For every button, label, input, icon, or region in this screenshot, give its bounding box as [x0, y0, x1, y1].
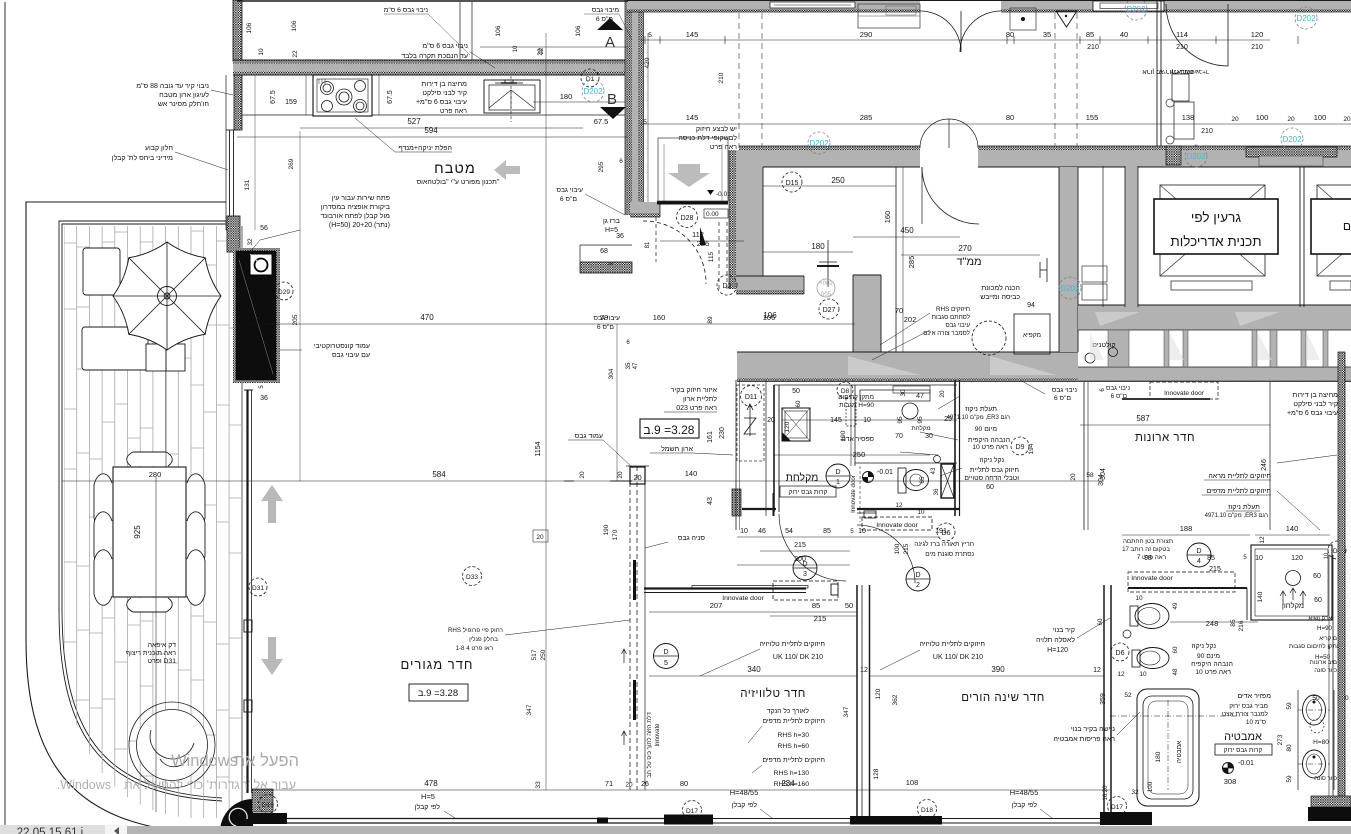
- svg-text:106: 106: [246, 22, 253, 33]
- svg-text:חיזוקים לתליית טלויזיה: חיזוקים לתליית טלויזיה: [919, 640, 985, 648]
- svg-text:5: 5: [664, 660, 668, 667]
- top right door arc: [1166, 4, 1228, 66]
- svg-text:10: 10: [258, 48, 265, 56]
- svg-text:נסתרת סוגנת מים: נסתרת סוגנת מים: [925, 551, 974, 558]
- svg-text:מקלחת: מקלחת: [911, 424, 930, 432]
- svg-text:UK 110/ DK 210: UK 110/ DK 210: [933, 654, 983, 661]
- marker D6b: [1111, 643, 1129, 661]
- svg-text:ברז גן: ברז גן: [603, 218, 620, 225]
- svg-text:D17: D17: [686, 808, 698, 815]
- svg-text:D19: D19: [262, 802, 274, 809]
- svg-text:85: 85: [1207, 555, 1215, 562]
- svg-text:20: 20: [767, 417, 775, 424]
- svg-text:594: 594: [424, 126, 438, 135]
- svg-text:145: 145: [830, 417, 842, 424]
- svg-text:70: 70: [895, 433, 903, 440]
- status bar arrow: [105, 825, 127, 834]
- status bar scroll: [127, 826, 1351, 834]
- svg-text:מגבות H=90: מגבות H=90: [839, 402, 874, 409]
- entry wall vertical: [625, 0, 632, 215]
- svg-text:290: 290: [860, 30, 873, 39]
- hall level box: [640, 419, 699, 438]
- level -0.01 entry: [707, 190, 714, 195]
- svg-text:120: 120: [875, 688, 882, 699]
- svg-text:48: 48: [1172, 668, 1179, 675]
- svg-text:20: 20: [617, 471, 624, 479]
- svg-text:מפזיר אדים: מפזיר אדים: [1237, 693, 1271, 700]
- svg-text:ניישה בקיר בנוי: ניישה בקיר בנוי: [1071, 726, 1115, 733]
- marker D11: [741, 386, 762, 407]
- svg-text:22: 22: [292, 50, 299, 58]
- bathtub: [1137, 689, 1199, 806]
- svg-text:100: 100: [1314, 113, 1327, 122]
- dim 470 line: [250, 323, 855, 325]
- bath tag box: [1215, 744, 1272, 755]
- svg-text:הכנה למכונת: הכנה למכונת: [981, 284, 1020, 292]
- svg-text:106: 106: [291, 20, 298, 31]
- svg-text:חדר שינה הורים: חדר שינה הורים: [961, 692, 1045, 704]
- svg-text:מיבוי גבס: מיבוי גבס: [592, 7, 620, 14]
- svg-text:ארון חשמל: ארון חשמל: [661, 445, 693, 453]
- svg-text:D9: D9: [1016, 444, 1025, 451]
- svg-text:478: 478: [424, 779, 438, 788]
- svg-text:נקל ניקוז: נקל ניקוז: [1192, 642, 1217, 650]
- south band: [737, 352, 1078, 380]
- svg-text:ראה פריסות אמבטיה: ראה פריסות אמבטיה: [1054, 736, 1116, 743]
- section marker B: [600, 107, 626, 119]
- svg-text:לםשקופי דלת כניסה: לםשקופי דלת כניסה: [678, 134, 737, 142]
- svg-text:חדר טלוויזיה: חדר טלוויזיה: [740, 687, 806, 700]
- west wall corner block: [227, 216, 240, 252]
- towel heater: [846, 398, 856, 426]
- svg-text:246: 246: [1261, 459, 1268, 471]
- svg-text:קרות גבס ירוק: קרות גבס ירוק: [789, 489, 828, 496]
- svg-text:תצורת בטן חחתםה: תצורת בטן חחתםה: [1123, 538, 1173, 545]
- svg-text:295: 295: [598, 161, 605, 172]
- suite door swing: [779, 514, 846, 581]
- svg-text:D202: D202: [1126, 5, 1146, 14]
- svg-text:תעלת ניקוז: תעלת ניקוז: [965, 405, 997, 413]
- entry threshold black: [657, 201, 728, 205]
- svg-text:50: 50: [792, 388, 800, 395]
- svg-text:202: 202: [904, 315, 917, 324]
- svg-text:22.05 15.61 i: 22.05 15.61 i: [17, 827, 84, 834]
- svg-text:D202: D202: [583, 87, 603, 96]
- elevator area band: [1080, 157, 1157, 166]
- svg-text:סניה גבס: סניה גבס: [678, 535, 706, 542]
- svg-text:ם"ס 6: ם"ס 6: [560, 196, 578, 203]
- svg-text:100: 100: [1256, 113, 1269, 122]
- corridor east wall: [1059, 167, 1078, 352]
- svg-text:12: 12: [1117, 671, 1125, 678]
- svg-text:ם"ס 6: ם"ס 6: [597, 324, 615, 331]
- svg-text:בחלק פנלין: בחלק פנלין: [469, 635, 498, 643]
- washer rects right top: [1172, 74, 1189, 101]
- svg-text:מקפיא: מקפיא: [1023, 332, 1041, 339]
- svg-text:לאורך כל הנקד: לאורך כל הנקד: [767, 707, 809, 715]
- core label box: [1154, 199, 1278, 254]
- svg-text:מול קבלן לפתח אורבונד: מול קבלן לפתח אורבונד: [320, 212, 390, 220]
- marker D6: [937, 523, 955, 541]
- svg-text:D29: D29: [278, 289, 290, 296]
- bidet right: [1137, 648, 1169, 669]
- svg-text:חיזוקים לתליית מדפים: חיזוקים לתליית מדפים: [762, 756, 825, 764]
- svg-text:340: 340: [747, 665, 761, 674]
- svg-text:50: 50: [1312, 695, 1320, 702]
- svg-text:1154: 1154: [535, 441, 542, 456]
- svg-text:304: 304: [1098, 474, 1105, 486]
- svg-text:90 מיום: 90 מיום: [975, 426, 998, 433]
- svg-text:32: 32: [247, 238, 254, 246]
- svg-text:4: 4: [1197, 558, 1201, 565]
- mamad west wall: [736, 150, 763, 289]
- bedroom right wall: [1103, 585, 1105, 822]
- svg-text:20: 20: [1343, 116, 1351, 123]
- svg-text:4971.10 מק"ם ,ER3 רגם: 4971.10 מק"ם ,ER3 רגם: [947, 415, 1010, 421]
- svg-text:RHS חיזוקים: RHS חיזוקים: [936, 306, 970, 313]
- deck outer border: [26, 202, 226, 833]
- svg-text:ממ"ד: ממ"ד: [956, 256, 981, 268]
- svg-text:225: 225: [697, 239, 710, 248]
- niche jamb lines: [580, 244, 632, 246]
- svg-text:20: 20: [625, 782, 633, 789]
- svg-text:005: 005: [821, 292, 832, 298]
- svg-text:59: 59: [1286, 775, 1293, 783]
- shower room top edge: [774, 384, 957, 386]
- door D28 leaf black triangle: [700, 227, 706, 245]
- bottom wall black 1: [664, 815, 713, 825]
- grid dashed lines: [738, 13, 740, 148]
- svg-text:לתליית ארון: לתליית ארון: [683, 395, 717, 403]
- svg-text:קיר לבני סילקט: קיר לבני סילקט: [1293, 400, 1338, 408]
- svg-text:חיזוקים לתליית מדפים: חיזוקים לתליית מדפים: [1207, 487, 1272, 495]
- svg-text:עבור אל 'הגדרות' כדי להפעיל את: עבור אל 'הגדרות' כדי להפעיל את: [124, 778, 296, 792]
- kitchen dim 594: [237, 136, 628, 138]
- svg-text:131: 131: [244, 179, 251, 190]
- closet top middle: [858, 4, 920, 28]
- svg-text:Windows: Windows: [171, 752, 238, 770]
- svg-text:הנבהה היקפית: הנבהה היקפית: [968, 437, 1010, 444]
- gray left arrow: [494, 160, 520, 180]
- west outer frame line: [225, 75, 227, 230]
- svg-text:128: 128: [873, 768, 880, 779]
- svg-text:ם"ס 6: ם"ס 6: [1111, 393, 1127, 400]
- svg-text:ראו פרט 4 1-8: ראו פרט 4 1-8: [456, 645, 494, 652]
- cyan label D202 #4: [1281, 128, 1303, 150]
- spa hot tub: [129, 702, 215, 788]
- top dim chain 1: [640, 39, 1270, 41]
- detail marker D3: [793, 556, 817, 580]
- upper door arc pair: [920, 119, 949, 148]
- dim 584 line: [62, 480, 1104, 482]
- svg-text:20: 20: [1070, 473, 1077, 481]
- marker D33: [463, 567, 482, 586]
- svg-text:H=48/55: H=48/55: [1010, 788, 1039, 797]
- sink right 2: [1303, 750, 1326, 778]
- svg-text:H=5: H=5: [421, 792, 435, 801]
- right edge hatched wall: [1338, 352, 1345, 797]
- svg-text:470: 470: [420, 313, 434, 322]
- mamad east column: [853, 275, 881, 355]
- svg-text:925: 925: [133, 525, 142, 539]
- bar niche wall hatched: [580, 262, 632, 273]
- svg-text:מקלחון: מקלחון: [1282, 601, 1304, 610]
- svg-text:+עיבוי גבס 6 ס"מ: +עיבוי גבס 6 ס"מ: [416, 99, 467, 106]
- svg-text:חריץ תאורה ברז לגינה: חריץ תאורה ברז לגינה: [914, 540, 974, 548]
- svg-text:78: 78: [600, 313, 608, 322]
- marker D2: [717, 275, 737, 295]
- svg-text:2: 2: [916, 582, 920, 589]
- svg-text:אמבטיה: אמבטיה: [1224, 731, 1262, 743]
- structural column black: [236, 251, 276, 380]
- svg-text:216: 216: [1238, 620, 1245, 631]
- svg-text:270: 270: [958, 244, 972, 253]
- svg-text:30: 30: [900, 389, 907, 397]
- bottom wall lines: [287, 818, 664, 820]
- svg-text:60: 60: [1314, 597, 1322, 604]
- kitchen west wall lower (hatched): [234, 75, 242, 130]
- svg-text:D: D: [915, 572, 920, 579]
- svg-text:49: 49: [1172, 602, 1179, 609]
- marker D9: [1011, 437, 1029, 455]
- vanity lines: [1297, 690, 1299, 790]
- corridor door arc: [922, 167, 979, 224]
- bottom wall black 3: [1100, 812, 1152, 825]
- svg-text:347: 347: [526, 704, 533, 715]
- svg-text:85: 85: [919, 476, 926, 483]
- living level box: [409, 684, 468, 701]
- svg-text:46: 46: [758, 528, 766, 535]
- svg-text:159: 159: [285, 99, 297, 106]
- svg-text:80: 80: [1006, 113, 1014, 122]
- shower cell: [782, 408, 810, 441]
- svg-text:81: 81: [645, 241, 651, 248]
- svg-text:106: 106: [763, 313, 776, 322]
- svg-text:10: 10: [1139, 671, 1147, 678]
- shower room left wall: [773, 385, 775, 512]
- svg-text:פתח שירות עבור עין: פתח שירות עבור עין: [332, 195, 390, 202]
- umbrella: [113, 242, 221, 350]
- top dim chain 2: [640, 123, 1351, 125]
- pocket dashed lines: [718, 222, 720, 290]
- svg-text:עם עיבוי גבס: עם עיבוי גבס: [332, 352, 370, 359]
- bottom wall black 2: [850, 816, 942, 825]
- svg-text:ניבוי גבס: ניבוי גבס: [1052, 387, 1078, 394]
- svg-text:210: 210: [1201, 128, 1213, 135]
- svg-text:85: 85: [1230, 619, 1237, 627]
- suite sw corner wall: [732, 489, 741, 516]
- svg-text:הנבהה היקפיח: הנבהה היקפיח: [1191, 661, 1233, 668]
- svg-text:54: 54: [785, 528, 793, 535]
- kitchen west wall upper (hatched): [233, 0, 242, 61]
- small basin circle: [902, 403, 918, 419]
- svg-text:362: 362: [892, 694, 899, 705]
- kitchen north wall: [233, 60, 628, 64]
- svg-text:Innovate door: Innovate door: [876, 522, 918, 529]
- svg-text:80: 80: [1286, 744, 1293, 752]
- svg-text:36: 36: [616, 233, 624, 240]
- svg-text:10: 10: [513, 45, 519, 52]
- svg-text:59: 59: [1286, 702, 1293, 710]
- svg-text:כביסה ומייבש: כביסה ומייבש: [980, 294, 1020, 301]
- svg-text:10: 10: [1135, 595, 1143, 602]
- shower room right wall: [954, 380, 956, 516]
- electric symbol: [749, 404, 751, 436]
- svg-text:0.00: 0.00: [706, 211, 719, 218]
- svg-text:527: 527: [407, 117, 421, 126]
- svg-text:D: D: [1196, 548, 1201, 555]
- dim x617: [616, 324, 618, 481]
- hatch block 1 on band: [1166, 146, 1181, 165]
- svg-text:140: 140: [1286, 524, 1299, 533]
- gray arrow down balcony: [261, 637, 283, 675]
- west window double line: [229, 130, 231, 230]
- svg-text:קיר לבני סילקט: קיר לבני סילקט: [422, 89, 467, 97]
- door swing bedroom2: [857, 525, 915, 583]
- top wall band: [627, 0, 1351, 2]
- svg-text:עמוד גבס: עמוד גבס: [575, 433, 603, 440]
- svg-text:לפי קבלן: לפי קבלן: [1012, 801, 1038, 809]
- svg-text:D2: D2: [723, 283, 732, 290]
- svg-text:קרות גבס ירוק: קרות גבס ירוק: [1224, 747, 1263, 754]
- mamad east edge lines: [895, 167, 897, 352]
- bottom right black: [1308, 807, 1351, 821]
- elevator shaft 2 x-box: [1317, 185, 1351, 276]
- svg-text:תכנון מפורט ע"י "בולטהאוס": תכנון מפורט ע"י "בולטהאוס": [417, 178, 500, 186]
- svg-text:20: 20: [536, 534, 544, 541]
- svg-text:חיזוקים לתליית טלויזיה: חיזוקים לתליית טלויזיה: [759, 640, 825, 648]
- svg-text:120: 120: [784, 421, 791, 432]
- door D28 swing dashed: [643, 221, 706, 284]
- site boundary line: [4, 2, 6, 826]
- svg-text:B: B: [607, 91, 617, 108]
- svg-text:112: 112: [692, 230, 704, 239]
- svg-text:269: 269: [288, 158, 295, 169]
- marker D19: [259, 795, 278, 814]
- svg-text:חדר מגורים: חדר מגורים: [400, 657, 473, 672]
- svg-text:52: 52: [1124, 692, 1132, 699]
- svg-text:D6: D6: [1116, 650, 1125, 657]
- svg-text:ם: ם: [1343, 219, 1351, 233]
- freezer box: [1014, 314, 1050, 354]
- svg-text:36: 36: [260, 395, 268, 402]
- svg-text:D18: D18: [921, 807, 933, 814]
- svg-text:160: 160: [653, 313, 666, 322]
- shower room bottom wall: [857, 508, 960, 510]
- svg-text:נקל ניקוז: נקל ניקוז: [980, 456, 1005, 464]
- duct x-box: [941, 464, 954, 498]
- elevator shaft 1 x-box: [1160, 185, 1265, 276]
- svg-text:חדר ארונות: חדר ארונות: [1135, 432, 1195, 444]
- boiler dashed circle: [972, 321, 1006, 355]
- svg-text:108: 108: [906, 778, 919, 787]
- svg-text:חיזוקים לתליית מראה: חיזוקים לתליית מראה: [1208, 472, 1271, 480]
- svg-text:100: 100: [1147, 781, 1154, 792]
- svg-text:210: 210: [718, 72, 725, 83]
- deck dim vertical line: [155, 477, 157, 812]
- svg-text:ביקורת אופציה במסדרון: ביקורת אופציה במסדרון: [321, 204, 390, 211]
- svg-text:D202: D202: [1296, 14, 1316, 23]
- svg-text:50: 50: [845, 601, 853, 610]
- tv pocket dashed wall: [629, 466, 631, 790]
- svg-text:190: 190: [840, 430, 847, 441]
- svg-text:D28: D28: [681, 215, 694, 222]
- svg-text:עיבוי גבס: עיבוי גבס: [945, 322, 970, 329]
- svg-text:161: 161: [707, 431, 714, 443]
- svg-text:הפלת יניקה+מנדף: הפלת יניקה+מנדף: [398, 144, 452, 152]
- svg-text:RHS h=60: RHS h=60: [777, 743, 809, 750]
- column diagonal: [239, 260, 273, 374]
- svg-text:‭-0.01: ‭-0.01: [1238, 760, 1254, 767]
- svg-text:A: A: [605, 34, 615, 51]
- marker D1: [581, 69, 599, 87]
- lounger 1: [83, 248, 120, 295]
- svg-text:D202: D202: [1060, 284, 1080, 293]
- svg-text:מתקן לחיםום: מתקן לחיםום: [838, 393, 874, 401]
- shaft divider wall: [1299, 167, 1301, 307]
- svg-text:כיור סונה: כיור סונה: [1314, 776, 1337, 782]
- svg-text:20: 20: [1287, 116, 1295, 123]
- svg-text:100: 100: [894, 543, 901, 554]
- small box top: [1010, 8, 1036, 30]
- marker D15: [782, 172, 802, 192]
- svg-text:מקלחת: מקלחת: [786, 472, 819, 484]
- svg-text:35: 35: [1043, 30, 1051, 39]
- shaft 1 small rect: [1171, 281, 1252, 290]
- svg-text:הפעל את: הפעל את: [234, 752, 299, 770]
- svg-text:10 ס"מ: 10 ס"מ: [1246, 719, 1266, 726]
- svg-text:20: 20: [633, 473, 641, 482]
- svg-text:207: 207: [710, 601, 723, 610]
- svg-text:D31: D31: [252, 585, 264, 592]
- svg-text:114: 114: [1176, 30, 1188, 39]
- svg-text:140: 140: [685, 469, 698, 478]
- detail marker D5: [654, 644, 679, 669]
- svg-text:10: 10: [863, 417, 871, 424]
- svg-text:32: 32: [1131, 789, 1139, 796]
- svg-text:ראה פרט 10: ראה פרט 10: [972, 444, 1008, 451]
- svg-text:+עיבוי גבס 6 ס"מ: +עיבוי גבס 6 ס"מ: [1287, 410, 1338, 417]
- svg-text:26: 26: [641, 781, 649, 788]
- tv room right wall: [856, 585, 858, 822]
- svg-text:180: 180: [560, 92, 573, 101]
- plank area edge: [241, 226, 243, 818]
- chairs: [94, 474, 112, 529]
- entry arrow gray: [668, 164, 710, 187]
- svg-text:20: 20: [579, 471, 586, 479]
- svg-text:12: 12: [1093, 667, 1101, 674]
- svg-text:67.5: 67.5: [387, 90, 394, 104]
- svg-text:280: 280: [149, 470, 162, 479]
- svg-text:60: 60: [1172, 646, 1179, 653]
- svg-text:ופרט D31: ופרט D31: [148, 658, 177, 665]
- svg-text:לפי קבלן: לפי קבלן: [732, 801, 758, 809]
- svg-text:חו'חלק מסינר אש: חו'חלק מסינר אש: [158, 100, 209, 108]
- svg-text:ראה פרט: ראה פרט: [440, 108, 467, 115]
- svg-text:210: 210: [1176, 44, 1188, 51]
- long vertical dim line: [545, 33, 547, 790]
- svg-text:35: 35: [626, 362, 632, 369]
- svg-text:D: D: [835, 469, 840, 476]
- deck inner border double line: [59, 221, 226, 801]
- svg-text:60: 60: [1097, 618, 1104, 625]
- svg-text:67.5: 67.5: [594, 117, 609, 126]
- bath level mark: [1223, 763, 1234, 774]
- marker D8: [1328, 541, 1346, 559]
- hatched block at corner: [252, 789, 273, 812]
- svg-text:D: D: [663, 649, 668, 656]
- svg-text:(H=50) 20+20 (נתר): (H=50) 20+20 (נתר): [329, 222, 390, 229]
